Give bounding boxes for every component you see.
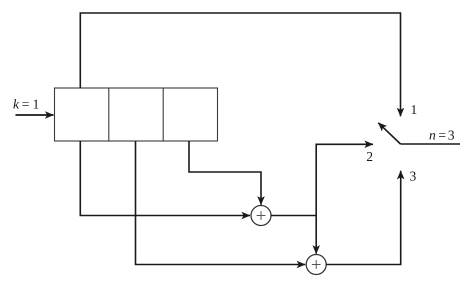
- wire: adder 2 output to commutator terminal 3: [326, 171, 401, 265]
- wire: adder 1 output to junction: [271, 215, 316, 217]
- adder U2 (modulo-2 adder): [306, 255, 326, 275]
- wire: junction down to adder 2 top input: [315, 216, 317, 254]
- input wire with arrow (k = 1): [16, 114, 54, 116]
- commutator output line: [401, 143, 461, 145]
- label 2 (output terminal 2): [367, 152, 372, 161]
- label 1 (output terminal 1): [412, 105, 417, 114]
- register cell divider 1: [108, 88, 110, 141]
- commutator arm (rotating switch): [378, 123, 400, 144]
- adder U1 (modulo-2 adder): [251, 206, 271, 226]
- label n = 3: [429, 131, 454, 140]
- register cell divider 2: [162, 88, 164, 141]
- label 3 (output terminal 3): [410, 172, 416, 181]
- wire: stage-1 top tap to commutator terminal 1: [80, 13, 400, 116]
- label k = 1: [13, 99, 38, 108]
- wire: junction up to commutator terminal 2: [316, 144, 373, 215]
- shift register box: [55, 88, 218, 141]
- wire: stage-1 bottom tap to adder 1 left input: [80, 141, 250, 216]
- wire: stage-2 bottom tap to adder 2 left input: [136, 141, 306, 265]
- wire: stage-3 bottom tap to adder 1 top input: [189, 141, 261, 205]
